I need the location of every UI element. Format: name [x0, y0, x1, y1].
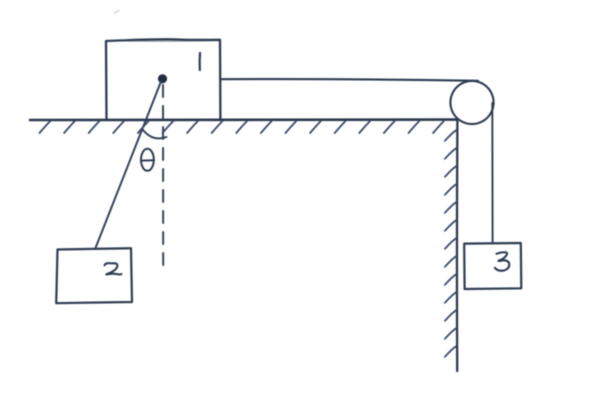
label 3 [495, 252, 510, 271]
block 1 [106, 39, 220, 119]
rope vertical segment [491, 103, 493, 243]
block 2 [56, 248, 132, 303]
pulley [450, 81, 493, 124]
label theta [141, 149, 154, 171]
wall hatching [445, 130, 457, 357]
rope horizontal segment [221, 79, 479, 81]
label 1 [199, 53, 202, 70]
angle arc [143, 130, 167, 138]
string to block 2 [96, 82, 162, 249]
attachment dot on block 1 [158, 74, 167, 83]
dashed vertical reference line [162, 85, 164, 268]
stray faint scan mark [115, 11, 119, 14]
table hatching [40, 121, 444, 133]
block 3 [464, 243, 521, 289]
table surface line [30, 118, 458, 121]
label 2 [105, 263, 122, 274]
wall vertical line [456, 120, 459, 371]
